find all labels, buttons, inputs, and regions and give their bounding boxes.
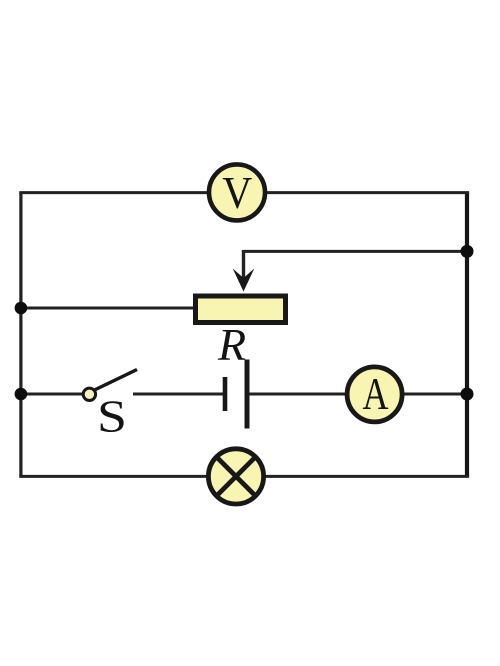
node right rail lower bbox=[461, 388, 474, 401]
voltmeter V bbox=[209, 164, 265, 220]
wire left rail bbox=[19, 193, 22, 477]
wire middle: battery to right rail bbox=[249, 393, 469, 396]
wire wiper vertical bbox=[242, 250, 245, 279]
wire top bbox=[19, 191, 469, 194]
svg-text:R: R bbox=[217, 319, 246, 370]
node left rail upper bbox=[15, 302, 28, 315]
ammeter A bbox=[347, 367, 402, 422]
wire bottom bbox=[19, 475, 469, 478]
node right rail upper bbox=[461, 245, 474, 258]
wire middle: left rail to switch bbox=[19, 393, 84, 396]
rheostat R body bbox=[196, 296, 286, 323]
svg-text:V: V bbox=[222, 167, 252, 218]
lamp bbox=[208, 449, 263, 504]
switch S bbox=[83, 370, 137, 401]
svg-text:A: A bbox=[363, 369, 389, 419]
node left rail lower bbox=[15, 388, 28, 401]
rheostat label R bbox=[217, 319, 246, 370]
wire wiper horizontal bbox=[244, 250, 470, 253]
wire rheostat left lead bbox=[19, 307, 195, 310]
wire middle: switch to battery bbox=[133, 393, 223, 396]
svg-text:S: S bbox=[97, 391, 127, 442]
wire right rail bbox=[465, 193, 469, 477]
battery negative plate (short) bbox=[223, 377, 228, 411]
switch label S bbox=[97, 391, 127, 442]
battery positive plate (long) bbox=[245, 360, 250, 429]
wiper arrowhead bbox=[233, 269, 255, 292]
